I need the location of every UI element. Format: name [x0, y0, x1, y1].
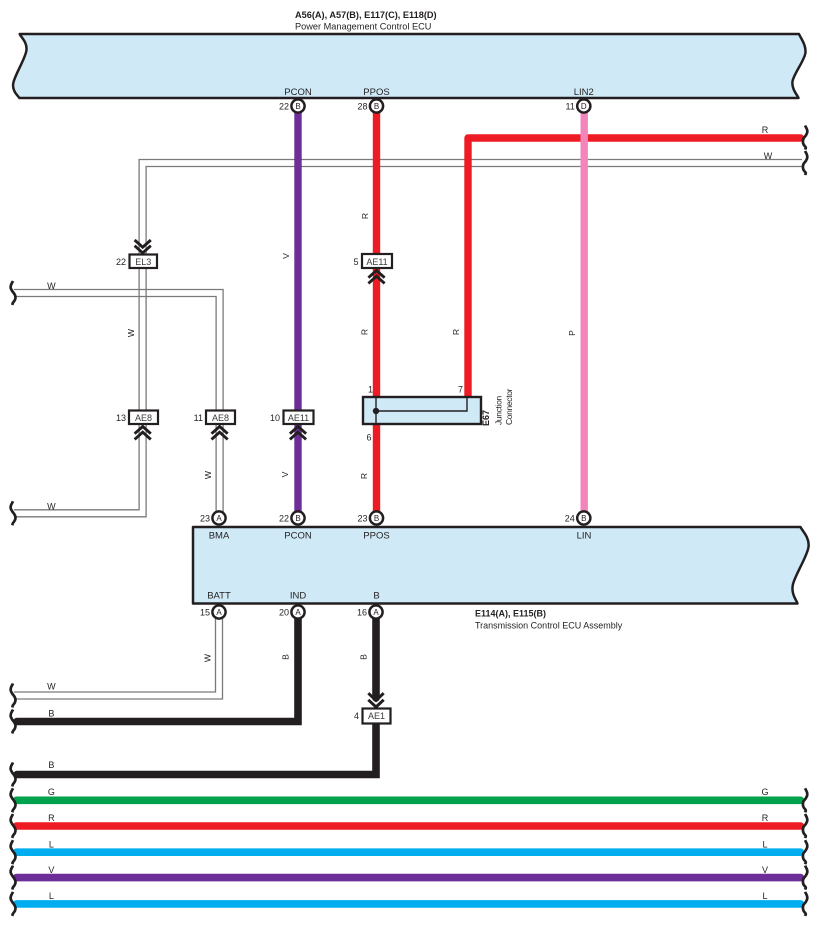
svg-text:EL3: EL3	[135, 257, 151, 267]
svg-text:W: W	[203, 470, 213, 479]
break symbol right R top	[803, 126, 807, 150]
wire W from left break to 11 AE8 and pin 23A (white wire)	[14, 290, 223, 513]
break symbol left W 293	[11, 281, 16, 305]
pin 28 B top ECU PPOS	[357, 99, 383, 112]
wire R red bus	[17, 822, 801, 830]
label Power Management Control ECU	[295, 10, 437, 32]
svg-text:BMA: BMA	[209, 531, 230, 542]
connector 10 AE11	[270, 411, 314, 440]
break symbol right L bus	[803, 840, 807, 864]
connector 4 AE1	[354, 693, 391, 723]
svg-text:A: A	[373, 608, 379, 617]
wire G green bus	[17, 796, 801, 804]
svg-text:AE8: AE8	[212, 413, 229, 423]
svg-text:G: G	[48, 787, 55, 797]
svg-text:W: W	[47, 502, 56, 512]
svg-text:22: 22	[279, 514, 289, 524]
break symbol right G bus	[803, 788, 807, 812]
svg-text:Power Management Control ECU: Power Management Control ECU	[295, 22, 431, 32]
svg-text:A: A	[216, 514, 222, 523]
svg-text:B: B	[295, 102, 300, 111]
svg-text:Transmission Control ECU Assem: Transmission Control ECU Assembly	[475, 621, 623, 631]
svg-text:R: R	[360, 329, 370, 335]
pin 22 B top ECU PCON	[279, 99, 305, 112]
break symbol left V bus	[11, 866, 16, 890]
svg-text:R: R	[359, 473, 369, 479]
break symbol left R bus	[11, 814, 16, 838]
svg-text:A: A	[295, 608, 301, 617]
svg-text:B: B	[281, 654, 291, 660]
svg-text:PCON: PCON	[284, 87, 312, 98]
svg-text:AE8: AE8	[135, 413, 152, 423]
break symbol left B 774	[11, 763, 16, 787]
svg-text:L: L	[49, 891, 54, 901]
svg-text:R: R	[762, 125, 769, 135]
pin 20 A lower ECU IND	[279, 605, 305, 618]
svg-text:PPOS: PPOS	[363, 531, 389, 542]
svg-text:28: 28	[357, 102, 367, 112]
wire B black from pin 16A through 4 AE1 to left break	[17, 618, 376, 775]
ECU block A56/A57/E117/E118 Power Management Control ECU	[13, 34, 805, 98]
svg-text:11: 11	[565, 102, 574, 112]
svg-text:AE11: AE11	[366, 257, 387, 267]
wire B black from pin 20A to left break	[17, 618, 298, 722]
wire P pink LIN2 from pin 11D to pin 24B lower	[581, 112, 588, 512]
svg-text:R: R	[451, 329, 461, 335]
svg-text:IND: IND	[290, 591, 307, 602]
svg-text:V: V	[762, 865, 768, 875]
connector 5 AE11	[353, 254, 392, 283]
break symbol left W 513	[11, 501, 16, 525]
svg-text:1: 1	[368, 385, 373, 395]
svg-text:W: W	[47, 682, 56, 692]
svg-text:R: R	[360, 213, 370, 219]
break symbol left L bus	[11, 840, 16, 864]
svg-text:B: B	[581, 514, 586, 523]
pin 24 B lower ECU LIN	[565, 511, 591, 524]
wire L blue bus	[17, 848, 801, 856]
svg-text:L: L	[49, 840, 54, 850]
svg-text:BATT: BATT	[207, 591, 231, 602]
svg-text:B: B	[374, 514, 379, 523]
svg-text:LIN: LIN	[577, 531, 592, 542]
svg-text:V: V	[280, 471, 290, 477]
pin 16 A lower ECU B	[357, 605, 383, 618]
svg-text:11: 11	[194, 413, 203, 423]
svg-text:B: B	[295, 514, 300, 523]
pin 22 B lower ECU PCON	[279, 511, 305, 524]
svg-text:6: 6	[366, 433, 371, 443]
svg-text:AE11: AE11	[288, 413, 309, 423]
svg-text:24: 24	[565, 514, 575, 524]
svg-text:P: P	[567, 330, 577, 336]
svg-text:B: B	[48, 760, 54, 770]
svg-text:PCON: PCON	[284, 531, 312, 542]
svg-text:E114(A), E115(B): E114(A), E115(B)	[475, 609, 546, 619]
svg-text:E67: E67	[481, 410, 491, 426]
wire V purple PCON from pin 22B to pin 22B lower	[294, 112, 301, 512]
wire W from pin 15A to left break (white wire)	[14, 618, 223, 699]
svg-text:B: B	[373, 591, 379, 602]
svg-text:13: 13	[116, 413, 126, 423]
svg-text:7: 7	[458, 385, 463, 395]
svg-text:R: R	[762, 813, 769, 823]
svg-text:4: 4	[354, 711, 359, 721]
svg-text:A: A	[216, 608, 222, 617]
svg-text:W: W	[764, 151, 773, 161]
break symbol right W top	[803, 151, 807, 175]
svg-text:10: 10	[270, 413, 280, 423]
wire V violet bus	[17, 874, 801, 882]
svg-text:L: L	[762, 840, 767, 850]
svg-text:Connector: Connector	[504, 388, 514, 425]
break symbol left W 695	[11, 684, 16, 708]
svg-text:W: W	[47, 281, 56, 291]
wire W from right break through EL3 and 13 AE8 to left break (white wire)	[14, 160, 802, 517]
connector 11 AE8	[194, 411, 235, 440]
svg-text:23: 23	[200, 514, 210, 524]
svg-text:W: W	[203, 653, 213, 662]
svg-text:22: 22	[116, 257, 126, 267]
pin 23 B lower ECU PPOS	[357, 511, 383, 524]
ECU block E114/E115 Transmission Control ECU Assembly	[193, 527, 809, 604]
pin 23 A lower ECU BMA	[200, 511, 226, 524]
break symbol right V bus	[803, 866, 807, 890]
svg-text:5: 5	[353, 257, 358, 267]
label Transmission Control ECU Assembly	[475, 609, 623, 631]
break symbol right L bus2	[803, 892, 807, 916]
svg-text:D: D	[581, 102, 587, 111]
junction connector E67	[363, 385, 514, 443]
svg-text:L: L	[762, 891, 767, 901]
svg-text:LIN2: LIN2	[574, 87, 594, 98]
pin 11 D top ECU LIN2	[565, 99, 590, 112]
break symbol left G bus	[11, 788, 16, 812]
svg-text:W: W	[126, 328, 136, 337]
svg-text:15: 15	[200, 608, 210, 618]
svg-text:V: V	[48, 865, 54, 875]
svg-text:B: B	[359, 654, 369, 660]
wire L blue bus 2	[17, 900, 801, 908]
svg-text:G: G	[761, 787, 768, 797]
connector EL3 pin 22	[116, 240, 157, 268]
svg-text:20: 20	[279, 608, 289, 618]
break symbol left B 721	[11, 710, 16, 734]
pin 15 A lower ECU BATT	[200, 605, 226, 618]
break symbol left L bus2	[11, 892, 16, 916]
svg-text:A56(A), A57(B), E117(C), E118(: A56(A), A57(B), E117(C), E118(D)	[295, 10, 437, 20]
svg-text:PPOS: PPOS	[363, 87, 389, 98]
wire R red PPOS from pin 28B to pin 23B lower	[373, 112, 380, 512]
svg-text:B: B	[48, 709, 54, 719]
svg-text:AE1: AE1	[368, 711, 385, 721]
svg-text:16: 16	[357, 608, 367, 618]
wire R red from right break to E67 pin 7	[468, 138, 801, 398]
svg-text:Junction: Junction	[494, 396, 504, 425]
svg-text:V: V	[281, 253, 291, 259]
svg-text:B: B	[374, 102, 379, 111]
connector 13 AE8	[116, 411, 158, 440]
break symbol right R bus	[803, 814, 807, 838]
svg-text:22: 22	[279, 102, 289, 112]
svg-text:R: R	[48, 813, 55, 823]
svg-text:23: 23	[357, 514, 367, 524]
